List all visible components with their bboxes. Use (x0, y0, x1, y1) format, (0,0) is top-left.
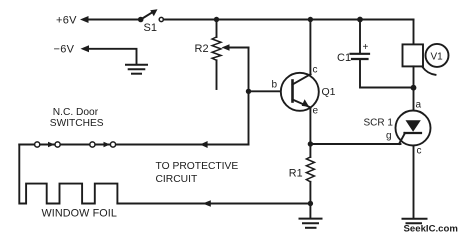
svg-text:−6V: −6V (54, 44, 75, 56)
ground (-6V) (126, 65, 147, 74)
ground (SCR) (403, 219, 427, 224)
thyristor SCR1 (396, 88, 431, 219)
svg-text:WINDOW FOIL: WINDOW FOIL (42, 207, 117, 219)
node C1/V1 junction (411, 85, 417, 91)
node Q1 base junction (246, 89, 251, 94)
window foil (19, 145, 117, 204)
wire wiper down to base node (248, 48, 250, 92)
svg-text:c: c (417, 146, 422, 157)
wire Q1 collector up (309, 20, 311, 75)
door switch 1 (35, 142, 61, 147)
svg-text:SWITCHES: SWITCHES (50, 118, 104, 129)
svg-text:g: g (386, 131, 392, 142)
transistor Q1 (281, 73, 319, 111)
svg-text:c: c (313, 65, 318, 76)
+6V arrow (80, 16, 89, 23)
svg-text:N.C. Door: N.C. Door (53, 107, 99, 118)
alarm bell V1 (403, 20, 449, 88)
door switch 2 (90, 142, 116, 147)
wire gate to SCR (310, 143, 400, 145)
ground (R1) (300, 204, 322, 228)
wire base node down to door switch line (248, 91, 250, 144)
wire -6V to ground (88, 49, 137, 65)
svg-text:+: + (363, 42, 369, 53)
svg-text:R1: R1 (289, 168, 303, 180)
wire S1 to top-right corner (164, 19, 414, 21)
wire R1 node to window foil (117, 203, 310, 205)
svg-text:Q1: Q1 (322, 86, 336, 98)
door switches line (19, 144, 248, 146)
svg-text:SCR 1: SCR 1 (364, 118, 394, 129)
R2 wiper arrow (222, 44, 249, 51)
svg-text:CIRCUIT: CIRCUIT (156, 174, 198, 185)
svg-text:V1: V1 (431, 52, 444, 63)
resistor R1 (306, 144, 314, 204)
svg-text:R2: R2 (195, 43, 209, 55)
node gate junction (308, 141, 313, 146)
svg-text:S1: S1 (144, 22, 157, 34)
node Q1 collector top (308, 17, 313, 22)
capacitor C1 (351, 20, 414, 88)
svg-text:a: a (416, 100, 422, 111)
svg-text:TO PROTECTIVE: TO PROTECTIVE (156, 161, 239, 172)
resistor R2 (212, 20, 221, 90)
-6V arrow (81, 45, 90, 52)
arrow to protective circuit (foil line) (203, 200, 211, 207)
svg-text:C1: C1 (337, 52, 351, 64)
svg-text:SeekIC.com: SeekIC.com (404, 224, 458, 235)
node R2 top (214, 17, 219, 22)
node R1 bottom junction (308, 201, 313, 206)
svg-text:b: b (272, 80, 278, 91)
arrow to protective circuit (switch line) (200, 141, 208, 148)
node C1 top (357, 17, 363, 23)
svg-text:+6V: +6V (56, 15, 77, 27)
wire base node to Q1 base (249, 90, 293, 92)
wire Q1 emitter down (309, 108, 311, 145)
wire +6V to S1 (87, 19, 139, 21)
switch S1 (138, 9, 164, 34)
svg-text:e: e (313, 106, 319, 117)
